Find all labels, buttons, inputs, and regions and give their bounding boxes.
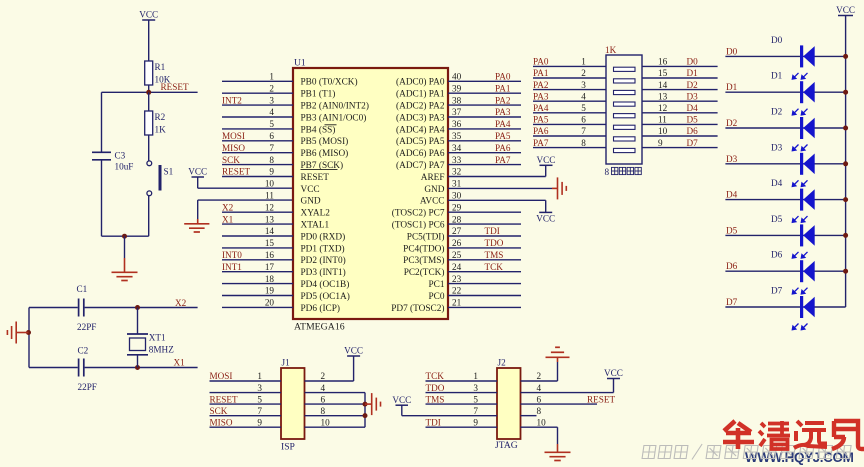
J1 pin 5 (210, 403, 282, 405)
resistor network RN1 body (606, 55, 642, 164)
svg-text:D0: D0 (687, 57, 699, 67)
connector J1 body (281, 368, 305, 439)
wire (VCC rail) (845, 16, 847, 308)
svg-text:VCC: VCC (188, 167, 207, 177)
LED D1 (725, 91, 845, 93)
svg-text:S1: S1 (164, 167, 174, 177)
svg-text:14: 14 (265, 226, 275, 236)
svg-text:11: 11 (265, 191, 274, 201)
svg-text:D5: D5 (687, 115, 699, 125)
crystal XT1 (137, 308, 139, 335)
svg-text:4: 4 (269, 107, 274, 117)
U1 pin 13 (222, 223, 293, 225)
svg-text:RESET: RESET (587, 394, 615, 404)
RN1 pin 12 (D4) (642, 112, 718, 114)
ground (U1 pin11) (197, 219, 199, 224)
svg-text:PA5: PA5 (533, 115, 549, 125)
svg-text:J1: J1 (282, 358, 291, 368)
ground (J2 pin10) (521, 426, 558, 428)
J2 pin 5 (426, 403, 498, 405)
wire (101, 92, 103, 152)
svg-text:VCC: VCC (537, 155, 556, 165)
svg-text:(ADC6) PA6: (ADC6) PA6 (396, 148, 445, 159)
svg-text:8: 8 (321, 406, 326, 416)
svg-text:D6: D6 (726, 261, 738, 271)
svg-text:RESET: RESET (210, 394, 238, 404)
svg-text:INT0: INT0 (222, 250, 242, 260)
U1 pin 1 (222, 80, 293, 82)
svg-text:XYAL2: XYAL2 (301, 209, 331, 219)
svg-text:4: 4 (581, 91, 586, 101)
resistor R2 (148, 92, 150, 111)
svg-text:PD2 (INT0): PD2 (INT0) (301, 255, 346, 266)
J1 pin 6 (305, 403, 366, 405)
svg-text:PC3(TMS): PC3(TMS) (403, 255, 444, 266)
svg-text:D1: D1 (687, 68, 699, 78)
svg-text:7: 7 (473, 406, 478, 416)
U1 pin 4 (222, 116, 293, 118)
svg-text:ATMEGA16: ATMEGA16 (294, 322, 345, 333)
RN1 pin 2 (PA1) (533, 77, 606, 79)
svg-text:D4: D4 (726, 190, 738, 200)
svg-text:22: 22 (452, 286, 462, 296)
svg-text:1K: 1K (605, 45, 617, 55)
resistor element 8 (614, 148, 636, 152)
U1 pin 9 (222, 176, 293, 178)
ground (crystal) (26, 330, 31, 335)
svg-text:7: 7 (257, 406, 262, 416)
svg-text:29: 29 (452, 202, 462, 212)
power VCC (J2 pin4) (521, 392, 614, 394)
watermark logo (723, 421, 754, 449)
svg-text:8: 8 (269, 155, 274, 165)
U1 pin 3 (222, 104, 293, 106)
svg-text:33: 33 (452, 155, 462, 165)
svg-text:PA0: PA0 (533, 57, 549, 67)
svg-text:PD1 (TXD): PD1 (TXD) (301, 243, 345, 254)
svg-text:18: 18 (265, 274, 275, 284)
svg-text:6: 6 (321, 394, 326, 404)
U1 pin 21 (448, 306, 521, 308)
svg-text:MISO: MISO (222, 143, 245, 153)
svg-text:14: 14 (658, 80, 668, 90)
svg-text:D3: D3 (771, 142, 783, 152)
svg-text:5: 5 (581, 103, 586, 113)
svg-text:34: 34 (452, 143, 462, 153)
svg-text:D4: D4 (687, 103, 699, 113)
resistor R1 (145, 61, 153, 85)
svg-text:9: 9 (257, 417, 262, 427)
LED D5 (725, 234, 845, 236)
svg-text:TDI: TDI (485, 226, 500, 236)
svg-text:PD0 (RXD): PD0 (RXD) (301, 231, 346, 242)
svg-text:(TOSC1) PC6: (TOSC1) PC6 (392, 220, 445, 231)
svg-text:(ADC5) PA5: (ADC5) PA5 (396, 136, 445, 147)
svg-text:(ADC2) PA2: (ADC2) PA2 (396, 101, 445, 112)
svg-text:8: 8 (581, 138, 586, 148)
svg-text:J2: J2 (498, 358, 507, 368)
node RESET (102, 91, 198, 93)
svg-text:15: 15 (658, 68, 668, 78)
svg-text:PA3: PA3 (495, 107, 511, 117)
svg-text:RESET: RESET (222, 167, 250, 177)
svg-text:GND: GND (424, 185, 444, 195)
svg-text:32: 32 (452, 167, 462, 177)
U1 pin 32 (448, 176, 546, 178)
svg-text:31: 31 (452, 179, 462, 189)
svg-text:37: 37 (452, 107, 462, 117)
svg-text:PC0: PC0 (428, 292, 444, 302)
svg-text:7: 7 (581, 126, 586, 136)
svg-text:2: 2 (321, 371, 326, 381)
svg-text:22PF: 22PF (77, 322, 96, 332)
U1 pin 26 (448, 247, 521, 249)
svg-text:PC2(TCK): PC2(TCK) (404, 267, 445, 278)
svg-text:TDO: TDO (426, 383, 445, 393)
svg-text:23: 23 (452, 274, 462, 284)
svg-text:TDI: TDI (426, 417, 441, 427)
svg-text:ISP: ISP (281, 442, 295, 453)
J1 pin 8 (305, 415, 366, 417)
svg-text:VCC: VCC (536, 213, 555, 223)
svg-text:C2: C2 (78, 346, 89, 356)
svg-text:8: 8 (537, 406, 542, 416)
svg-text:PB1 (T1): PB1 (T1) (301, 89, 336, 100)
svg-text:D7: D7 (687, 138, 699, 148)
RN1 pin 1 (PA0) (533, 65, 606, 67)
resistor element 2 (614, 79, 636, 83)
svg-text:3: 3 (581, 80, 586, 90)
svg-text:(TOSC2) PC7: (TOSC2) PC7 (392, 208, 445, 219)
svg-text:PB2 (AIN0/INT2): PB2 (AIN0/INT2) (301, 101, 369, 112)
U1 pin 2 (222, 92, 293, 94)
RN1 pin 16 (D0) (642, 65, 718, 67)
svg-text:13: 13 (658, 91, 668, 101)
svg-text:3: 3 (257, 383, 262, 393)
svg-text:8: 8 (605, 167, 610, 177)
U1 pin 28 (448, 223, 521, 225)
J1 pin 9 (210, 426, 282, 428)
U1 pin 16 (222, 259, 293, 261)
svg-text:26: 26 (452, 238, 462, 248)
svg-text:28: 28 (452, 214, 462, 224)
LED D3 (725, 163, 845, 165)
U1 pin 40 (448, 80, 521, 82)
svg-text:D4: D4 (771, 178, 783, 188)
svg-text:22PF: 22PF (78, 382, 97, 392)
svg-text:19: 19 (265, 286, 275, 296)
svg-text:PC5(TDI): PC5(TDI) (407, 231, 445, 242)
svg-text:XTAL1: XTAL1 (301, 221, 330, 231)
wire (101, 160, 103, 236)
U1 pin 8 (222, 164, 293, 166)
U1 pin 37 (448, 116, 521, 118)
svg-text:D7: D7 (771, 286, 783, 296)
wire (148, 85, 150, 92)
svg-text:PA2: PA2 (533, 80, 549, 90)
svg-text:X1: X1 (174, 357, 186, 367)
svg-text:38: 38 (452, 95, 462, 105)
svg-text:PD3 (INT1): PD3 (INT1) (301, 267, 346, 278)
svg-text:VCC: VCC (392, 395, 411, 405)
svg-text:XT1: XT1 (149, 333, 166, 343)
svg-text:C3: C3 (115, 151, 126, 161)
svg-text:D6: D6 (687, 126, 699, 136)
svg-text:C1: C1 (77, 284, 88, 294)
U1 pin 7 (222, 152, 293, 154)
svg-text:VCC: VCC (139, 10, 158, 20)
svg-text:2: 2 (581, 68, 586, 78)
U1 pin 5 (222, 128, 293, 130)
J2 pin 3 (426, 392, 498, 394)
U1 pin 30 (448, 199, 546, 201)
svg-text:R1: R1 (155, 62, 166, 72)
svg-text:PC4(TDO): PC4(TDO) (403, 243, 444, 254)
ground (J2 pin2) (521, 380, 558, 382)
svg-text:PA6: PA6 (495, 143, 511, 153)
svg-text:PA1: PA1 (495, 83, 511, 93)
svg-text:30: 30 (452, 191, 462, 201)
svg-text:AREF: AREF (421, 173, 445, 183)
LED D4 (725, 199, 845, 201)
svg-text:D2: D2 (687, 80, 699, 90)
overline (RESET) (301, 168, 338, 170)
resistor element 7 (614, 137, 636, 141)
svg-text:TMS: TMS (485, 250, 504, 260)
svg-text:1: 1 (581, 57, 586, 67)
svg-text:PA5: PA5 (495, 131, 511, 141)
svg-text:PB0 (T0/XCK): PB0 (T0/XCK) (301, 77, 358, 88)
U1 pin 12 (222, 211, 293, 213)
wire (364, 393, 366, 428)
ground (J1) (365, 403, 372, 405)
connector J2 body (497, 368, 521, 439)
svg-text:12: 12 (658, 103, 668, 113)
wire (29, 367, 78, 369)
svg-text:21: 21 (452, 298, 462, 308)
svg-text:13: 13 (265, 214, 275, 224)
svg-text:1: 1 (257, 371, 262, 381)
resistor element 1 (614, 67, 636, 71)
RN1 pin 4 (PA3) (533, 100, 606, 102)
svg-text:7: 7 (269, 143, 274, 153)
svg-text:R2: R2 (155, 112, 166, 122)
wire (102, 235, 149, 237)
svg-text:VCC: VCC (344, 346, 363, 356)
svg-text:1: 1 (269, 72, 274, 82)
LED D2 (725, 127, 845, 129)
svg-text:PA1: PA1 (533, 68, 549, 78)
U1 pin 35 (448, 140, 521, 142)
U1 pin 24 (448, 271, 521, 273)
svg-text:VCC: VCC (836, 5, 855, 15)
svg-text:11: 11 (658, 115, 667, 125)
svg-text:JTAG: JTAG (495, 440, 518, 451)
svg-text:D5: D5 (771, 214, 783, 224)
svg-text:INT2: INT2 (222, 95, 242, 105)
power VCC (reset divider) (142, 19, 155, 21)
wire (198, 187, 293, 189)
RN1 pin 14 (D2) (642, 89, 718, 91)
svg-text:9: 9 (269, 167, 274, 177)
svg-text:(ADC1) PA1: (ADC1) PA1 (396, 89, 445, 100)
RN1 pin 9 (D7) (642, 147, 718, 149)
LED D7 (725, 306, 845, 308)
capacitor C3 (92, 151, 111, 153)
svg-text:PB3 (AIN1/OC0): PB3 (AIN1/OC0) (301, 112, 367, 123)
svg-text:SCK: SCK (210, 406, 228, 416)
svg-text:PB4 (SS): PB4 (SS) (301, 124, 336, 135)
svg-text:X2: X2 (222, 202, 234, 212)
svg-text:D6: D6 (771, 250, 783, 260)
J1 pin 7 (210, 415, 282, 417)
RN1 pin 3 (PA2) (533, 89, 606, 91)
overline (SS) (325, 124, 337, 126)
U1 pin 19 (222, 295, 293, 297)
svg-text:X2: X2 (175, 298, 187, 308)
resistor element 4 (614, 102, 636, 106)
U1 pin 22 (448, 295, 521, 297)
svg-text:MISO: MISO (210, 417, 233, 427)
svg-text:10: 10 (265, 179, 275, 189)
svg-text:D0: D0 (771, 35, 783, 45)
svg-text:PC1: PC1 (428, 280, 444, 290)
svg-text:40: 40 (452, 72, 462, 82)
LED D6 (725, 270, 845, 272)
svg-text:4: 4 (321, 383, 326, 393)
svg-text:2: 2 (269, 83, 274, 93)
RN1 pin 7 (PA6) (533, 135, 606, 137)
RN1 pin 11 (D5) (642, 123, 718, 125)
svg-text:MOSI: MOSI (210, 371, 233, 381)
wire (148, 196, 150, 236)
svg-text:PA0: PA0 (495, 72, 511, 82)
svg-text:17: 17 (265, 262, 275, 272)
svg-text:PA2: PA2 (495, 95, 511, 105)
resistor element 5 (614, 114, 636, 118)
J1 pin 10 (305, 426, 366, 428)
U1 pin 29 (448, 211, 521, 213)
svg-text:10: 10 (321, 417, 331, 427)
svg-text:9: 9 (473, 417, 478, 427)
U1 pin 6 (222, 140, 293, 142)
RN1 pin 5 (PA4) (533, 112, 606, 114)
svg-text:9: 9 (658, 138, 663, 148)
svg-text:PA4: PA4 (495, 119, 511, 129)
RN1 pin 6 (PA5) (533, 123, 606, 125)
U1 pin 39 (448, 92, 521, 94)
svg-text:4: 4 (537, 383, 542, 393)
svg-text:(ADC3) PA3: (ADC3) PA3 (396, 112, 445, 123)
svg-text:20: 20 (265, 298, 275, 308)
svg-text:35: 35 (452, 131, 462, 141)
U1 pin 31 (448, 187, 552, 189)
svg-text:5: 5 (473, 394, 478, 404)
U1 pin 27 (448, 235, 521, 237)
svg-text:PD7 (TOSC2): PD7 (TOSC2) (391, 303, 444, 314)
resistor element 3 (614, 90, 636, 94)
svg-text:PB6 (MISO): PB6 (MISO) (301, 148, 349, 159)
U1 pin 23 (448, 283, 521, 285)
svg-text:39: 39 (452, 83, 462, 93)
svg-text:INT1: INT1 (222, 262, 242, 272)
svg-text:PA7: PA7 (533, 138, 549, 148)
svg-text:6: 6 (581, 115, 586, 125)
svg-text:D3: D3 (687, 91, 699, 101)
svg-text:AVCC: AVCC (420, 197, 445, 207)
svg-text:D0: D0 (726, 46, 738, 56)
svg-text:TCK: TCK (485, 262, 504, 272)
U1 pin 14 (222, 235, 293, 237)
svg-text:RESET: RESET (301, 173, 330, 183)
wire (198, 199, 293, 201)
svg-text:SCK: SCK (222, 155, 240, 165)
svg-text:PB5 (MOSI): PB5 (MOSI) (301, 136, 349, 147)
svg-text:GND: GND (301, 197, 321, 207)
wire (28, 308, 30, 368)
svg-text:10: 10 (658, 126, 668, 136)
RN1 pin 13 (D3) (642, 100, 718, 102)
svg-text:25: 25 (452, 250, 462, 260)
svg-text:1K: 1K (155, 125, 167, 135)
LED D0 (725, 55, 845, 57)
svg-text:D3: D3 (726, 154, 738, 164)
svg-text:D2: D2 (771, 107, 783, 117)
svg-text:D1: D1 (771, 71, 783, 81)
svg-text:VCC: VCC (301, 185, 320, 195)
svg-text:(ADC0) PA0: (ADC0) PA0 (396, 77, 445, 88)
svg-text:U1: U1 (294, 58, 306, 69)
J2 pin 1 (426, 380, 498, 382)
svg-text:10: 10 (537, 417, 547, 427)
svg-text:D1: D1 (726, 82, 738, 92)
svg-text:PA7: PA7 (495, 155, 511, 165)
U1 pin 38 (448, 104, 521, 106)
node RESET (J2 pin6) (521, 403, 598, 405)
svg-text:15: 15 (265, 238, 275, 248)
svg-text:(ADC7) PA7: (ADC7) PA7 (396, 160, 445, 171)
watermark caption (642, 444, 851, 460)
resistor element 6 (614, 125, 636, 129)
svg-text:1: 1 (473, 371, 478, 381)
power VCC (J1 pin2) (305, 380, 354, 382)
svg-text:D5: D5 (726, 225, 738, 235)
svg-text:(ADC4) PA4: (ADC4) PA4 (396, 124, 445, 135)
J2 pin 9 (426, 426, 498, 428)
svg-text:PA6: PA6 (533, 126, 549, 136)
svg-text:TDO: TDO (485, 238, 504, 248)
svg-text:RESET: RESET (161, 82, 189, 92)
svg-text:TMS: TMS (426, 394, 445, 404)
switch S1 (148, 135, 150, 161)
svg-text:2: 2 (537, 371, 542, 381)
svg-text:3: 3 (269, 95, 274, 105)
svg-text:16: 16 (265, 250, 275, 260)
U1 pin 15 (222, 247, 293, 249)
U1 pin 36 (448, 128, 521, 130)
RN1 pin 10 (D6) (642, 135, 718, 137)
svg-text:PD4 (OC1B): PD4 (OC1B) (301, 279, 350, 290)
svg-text:D2: D2 (726, 118, 738, 128)
svg-text:24: 24 (452, 262, 462, 272)
svg-text:27: 27 (452, 226, 462, 236)
J1 pin 1 (210, 380, 282, 382)
svg-text:D7: D7 (726, 297, 738, 307)
U1 pin 33 (448, 164, 521, 166)
svg-text:5: 5 (269, 119, 274, 129)
svg-text:6: 6 (537, 394, 542, 404)
svg-text:12: 12 (265, 202, 275, 212)
